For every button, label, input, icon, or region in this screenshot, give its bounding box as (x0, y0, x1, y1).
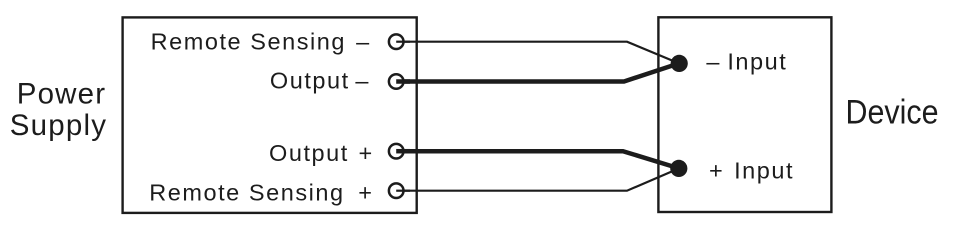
svg-text:– Input: – Input (706, 48, 787, 74)
wire remote sensing - (thin) (396, 42, 679, 64)
svg-text:Supply: Supply (10, 109, 107, 142)
terminal stub output + (396, 149, 410, 154)
terminal stub remote sensing - (396, 41, 410, 43)
svg-text:Remote Sensing +: Remote Sensing + (149, 180, 373, 206)
power supply box (123, 17, 417, 213)
terminal stub remote sensing + (396, 190, 410, 192)
wire remote sensing + (thin) (396, 168, 679, 190)
terminal output - (389, 74, 404, 89)
svg-text:Power: Power (17, 77, 107, 110)
wire output - (thick) (396, 63, 679, 81)
svg-text:Output –: Output – (270, 67, 370, 93)
svg-text:Output +: Output + (269, 140, 374, 166)
terminal remote sensing + (389, 183, 404, 198)
svg-text:Remote Sensing –: Remote Sensing – (151, 29, 371, 55)
svg-text:Device: Device (846, 93, 939, 131)
terminal stub output - (396, 79, 410, 84)
terminal output + (389, 144, 404, 159)
wire output + (thick) (396, 151, 679, 168)
node - input junction dot (671, 55, 688, 72)
terminal remote sensing - (389, 34, 404, 49)
node + input junction dot (670, 160, 687, 177)
device box (658, 17, 831, 212)
svg-text:+ Input: + Input (709, 158, 794, 184)
